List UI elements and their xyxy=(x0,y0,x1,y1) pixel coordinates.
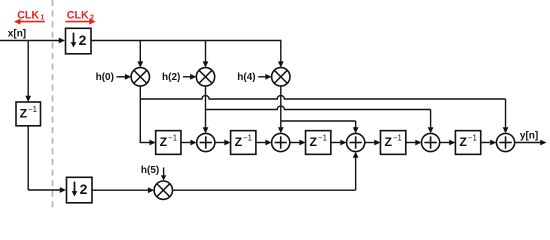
svg-text:Z: Z xyxy=(160,135,168,149)
wire Z1 to A1 xyxy=(181,140,197,146)
coefficient label h(4) xyxy=(237,72,255,83)
svg-text:h(5): h(5) xyxy=(141,165,159,176)
wire x[n] branch down into Z0 xyxy=(25,41,31,103)
svg-text:CLK: CLK xyxy=(67,9,89,21)
wire Z2 to A2 xyxy=(256,140,272,146)
svg-text:h(4): h(4) xyxy=(237,72,255,83)
adder A1 xyxy=(197,133,215,151)
wire Z5 to A5 xyxy=(481,140,497,146)
wire Z3 to A3 xyxy=(331,140,347,146)
delay element Z2 xyxy=(231,131,256,155)
wire M2 output down into adder A1 xyxy=(203,86,209,133)
downsampler D2 (bottom, &#8595;2) xyxy=(67,177,93,203)
wire tap drop to M3 xyxy=(278,40,284,68)
svg-text:x[n]: x[n] xyxy=(8,29,26,40)
wire tap drop to M1 xyxy=(137,41,143,68)
input label x[n] xyxy=(8,29,26,40)
bus wire h(0) to A5 (with crossover hops) xyxy=(140,95,508,133)
wire x[n] to downsampler D1 xyxy=(0,38,65,44)
arrow h(2) into M2 xyxy=(183,74,196,80)
wire D1 output bus (top) xyxy=(91,40,281,42)
svg-text:Z: Z xyxy=(310,135,318,149)
downsampler D1 (top, &#8595;2) xyxy=(66,28,92,54)
svg-text:2: 2 xyxy=(80,181,88,197)
svg-text:−1: −1 xyxy=(243,134,252,143)
multiplier M4 (h5) xyxy=(154,181,172,199)
wire M1 output down and into Z1 xyxy=(140,86,156,145)
arrow h(5) into M4 top xyxy=(161,168,166,181)
multiplier M2 (h2) xyxy=(196,68,214,86)
CLK1 domain arrow (left) xyxy=(14,19,45,25)
svg-text:Z: Z xyxy=(20,107,28,121)
svg-text:Z: Z xyxy=(235,135,243,149)
delay element Z1 xyxy=(156,131,181,155)
wire output y[n] xyxy=(515,140,547,146)
coefficient label h(2) xyxy=(162,72,180,83)
bus wire h(4) to A3 xyxy=(281,121,359,133)
svg-text:−1: −1 xyxy=(28,105,37,114)
svg-text:Z: Z xyxy=(459,135,467,149)
multiplier M1 (h0) xyxy=(131,68,149,86)
svg-text:CLK: CLK xyxy=(17,9,39,21)
wire D2 to multiplier M4 xyxy=(92,187,154,193)
svg-text:h(0): h(0) xyxy=(96,72,114,83)
wire A3 to Z4 xyxy=(365,140,381,146)
svg-text:−1: −1 xyxy=(318,134,327,143)
arrow h(4) into M3 xyxy=(258,74,271,80)
delay element Z5 xyxy=(455,131,480,155)
delay element Z3 xyxy=(306,131,331,155)
clock label CLK1 xyxy=(17,9,44,21)
wire A2 to Z3 xyxy=(290,140,306,146)
wire tap drop to M2 xyxy=(203,41,209,68)
svg-text:Z: Z xyxy=(384,135,392,149)
delay element Z4 xyxy=(380,131,405,155)
adder A5 xyxy=(496,133,514,151)
coefficient label h(0) xyxy=(96,72,114,83)
dashed clock-domain boundary line xyxy=(52,0,54,211)
bus wire h(2) to A4 (with crossover hop) xyxy=(206,106,434,133)
wire Z4 to A4 xyxy=(406,140,422,146)
wire M3 output down into adder A2 xyxy=(278,86,284,133)
svg-text:2: 2 xyxy=(79,32,87,48)
svg-text:−1: −1 xyxy=(468,134,477,143)
arrow h(0) into M1 xyxy=(117,74,132,80)
coefficient label h(5) xyxy=(141,165,159,176)
svg-text:h(2): h(2) xyxy=(162,72,180,83)
wire A4 to Z5 xyxy=(440,140,456,146)
CLK2 domain arrow (right) xyxy=(65,19,95,25)
wire A1 to Z2 xyxy=(215,140,231,146)
multiplier M3 (h4) xyxy=(272,68,290,86)
wire M4 output to adder A3 bottom xyxy=(173,152,359,191)
adder A4 xyxy=(421,133,439,151)
output label y[n] xyxy=(520,131,538,142)
adder A3 xyxy=(347,133,365,151)
wire Z0 down and into downsampler D2 xyxy=(28,125,66,193)
delay element Z0 (input branch) xyxy=(16,102,41,126)
clock label CLK2 xyxy=(67,9,94,21)
svg-text:−1: −1 xyxy=(168,134,177,143)
adder A2 xyxy=(272,133,290,151)
svg-text:−1: −1 xyxy=(393,134,402,143)
svg-text:y[n]: y[n] xyxy=(520,131,538,142)
svg-text:1: 1 xyxy=(40,12,44,21)
